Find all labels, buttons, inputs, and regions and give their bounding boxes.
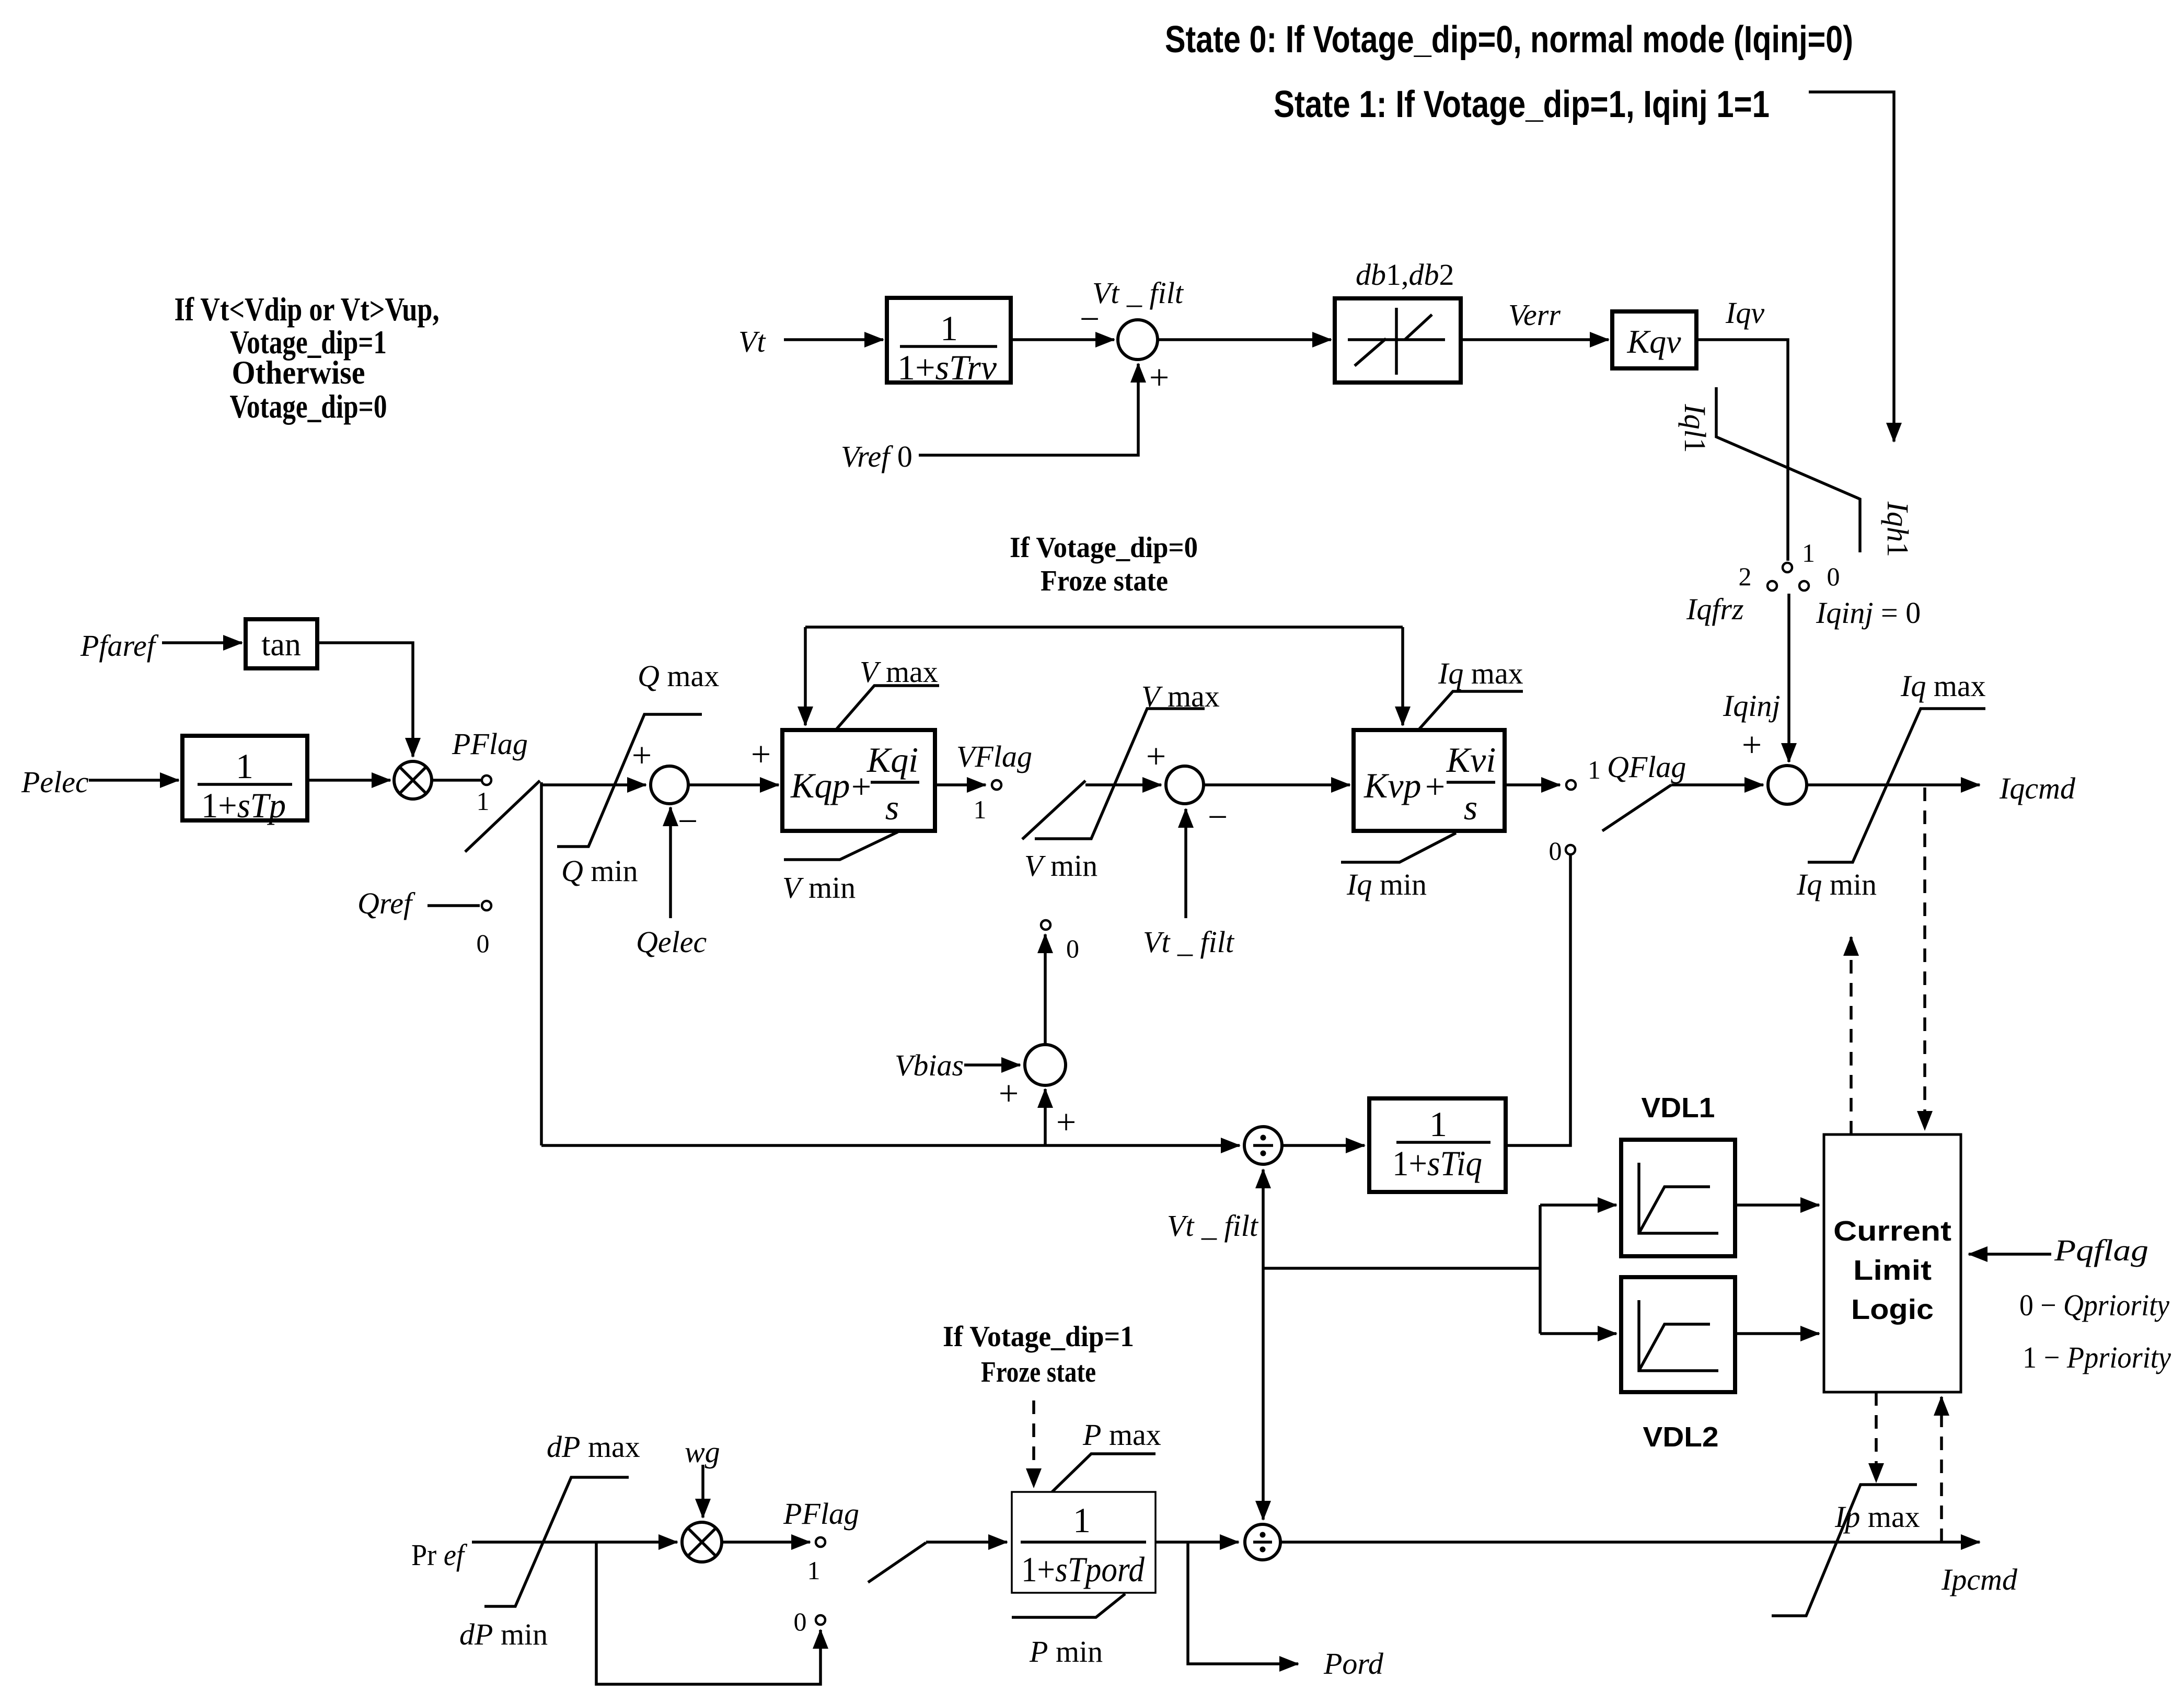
svg-text:Ipcmd: Ipcmd bbox=[1941, 1562, 2018, 1596]
svg-text:1+sTp: 1+sTp bbox=[201, 785, 286, 825]
wire divider to sTiq block bbox=[1282, 1144, 1365, 1147]
limiter Ip max (output) bbox=[1772, 1485, 1917, 1616]
svg-text:V min: V min bbox=[782, 871, 856, 905]
svg-text:Current: Current bbox=[1833, 1215, 1951, 1247]
svg-text:Vt _ filt: Vt _ filt bbox=[1143, 925, 1235, 959]
svg-text:Iq max: Iq max bbox=[1900, 669, 1986, 703]
wire Vref0 to summing (up arrow) bbox=[919, 364, 1138, 455]
svg-text:If Votage_dip=1: If Votage_dip=1 bbox=[943, 1321, 1134, 1353]
svg-text:Kvi: Kvi bbox=[1446, 740, 1496, 780]
svg-text:−: − bbox=[1080, 299, 1100, 339]
svg-text:Iq min: Iq min bbox=[1346, 867, 1427, 901]
svg-text:Vt _ filt: Vt _ filt bbox=[1167, 1209, 1259, 1243]
svg-text:Pelec: Pelec bbox=[21, 765, 89, 799]
summing junction Iqinj bbox=[1768, 766, 1807, 804]
svg-text:Pord: Pord bbox=[1323, 1647, 1384, 1681]
svg-text:Iql1: Iql1 bbox=[1678, 403, 1712, 453]
svg-text:Kvp: Kvp bbox=[1363, 766, 1422, 805]
svg-text:State 0: If Votage_dip=0, no: State 0: If Votage_dip=0, normal mode (I… bbox=[1165, 19, 1853, 61]
pointer V min to Kqp bbox=[784, 832, 898, 860]
svg-text:0: 0 bbox=[477, 929, 490, 958]
svg-text:1+sTiq: 1+sTiq bbox=[1392, 1143, 1482, 1183]
block Kvp + Kvi/s bbox=[1354, 730, 1505, 831]
QFlag switch terminal 0 bbox=[1566, 845, 1575, 854]
svg-text:Vbias: Vbias bbox=[895, 1048, 964, 1082]
svg-text:Limit: Limit bbox=[1853, 1255, 1932, 1286]
svg-text:dP max: dP max bbox=[547, 1430, 640, 1464]
pointer P min to Tpord bbox=[1012, 1594, 1125, 1617]
wire Vt_filt to V summing (up arrow) bbox=[1184, 809, 1187, 918]
svg-text:0: 0 bbox=[1827, 562, 1840, 591]
block 1/(1+sTpord) bbox=[1012, 1492, 1155, 1593]
svg-text:1: 1 bbox=[1802, 538, 1815, 568]
svg-text:+: + bbox=[1425, 767, 1445, 806]
wire wg to multiplier bbox=[701, 1465, 704, 1518]
block 1/(1+sTp) bbox=[182, 736, 307, 825]
wire multiplier to PFlag terminal 1 bbox=[722, 1541, 810, 1544]
wire Vt_filt vertical (up into divider) bbox=[1262, 1170, 1265, 1268]
wire Vbias to Vbias summing bbox=[964, 1063, 1020, 1067]
switch terminal 0 bbox=[1799, 581, 1809, 591]
wire Pqflag into CLL bbox=[1969, 1253, 2051, 1256]
svg-text:VDL1: VDL1 bbox=[1642, 1092, 1715, 1124]
wire Vt to Trv block bbox=[784, 338, 883, 341]
pointer P max to Tpord bbox=[1051, 1454, 1155, 1493]
limiter Qmax/Qmin bbox=[557, 714, 702, 847]
freeze-state feedback wire (If Votage_dip=0) bbox=[805, 626, 1403, 629]
wire Qelec to Q summing (up arrow) bbox=[669, 807, 672, 918]
svg-text:0: 0 bbox=[794, 1607, 807, 1636]
text: If Vt condition note bbox=[175, 291, 440, 425]
wire Pref branch to terminal 0 bbox=[596, 1542, 821, 1684]
svg-text:−: − bbox=[678, 801, 698, 841]
svg-text:Iq max: Iq max bbox=[1438, 656, 1523, 690]
wire Pfaref to tan bbox=[162, 641, 242, 644]
wire multiplier to PFlag terminal 1 bbox=[432, 779, 481, 782]
wire Pelec to Tp block bbox=[89, 779, 179, 782]
svg-text:1: 1 bbox=[807, 1556, 821, 1585]
rate limiter dPmax/dPmin bbox=[484, 1477, 629, 1606]
svg-text:Q max: Q max bbox=[638, 659, 719, 693]
wire Kqp to VFlag terminal 1 bbox=[935, 783, 986, 786]
block 1/(1+sTrv) bbox=[887, 298, 1011, 387]
pointer V max to Kqp bbox=[836, 686, 939, 730]
wire switch pole down to divider row bbox=[540, 782, 543, 1145]
divider circle (Verr/Vt_filt) bbox=[1244, 1127, 1282, 1164]
svg-text:+: + bbox=[1056, 1102, 1076, 1142]
block Current Limit Logic bbox=[1824, 1134, 1961, 1392]
svg-text:Verr: Verr bbox=[1508, 298, 1561, 332]
svg-text:0 − Qpriority: 0 − Qpriority bbox=[2019, 1288, 2169, 1322]
block tan bbox=[246, 619, 317, 668]
svg-text:Vref 0: Vref 0 bbox=[841, 439, 912, 473]
dashed wire Iqcmd junction down into CLL bbox=[1923, 788, 1926, 1130]
svg-text:1 − Ppriority: 1 − Ppriority bbox=[2023, 1340, 2171, 1374]
svg-text:Froze state: Froze state bbox=[981, 1356, 1096, 1388]
svg-text:1: 1 bbox=[1429, 1104, 1447, 1144]
wire VDL2 to Current Limit Logic bbox=[1735, 1332, 1819, 1335]
svg-text:P max: P max bbox=[1082, 1418, 1161, 1452]
wire Pord branch bbox=[1188, 1542, 1298, 1664]
svg-text:Votage_dip=0: Votage_dip=0 bbox=[230, 388, 387, 425]
limiter Vmax/Vmin (second) bbox=[1035, 709, 1205, 839]
svg-text:VDL2: VDL2 bbox=[1643, 1421, 1719, 1453]
svg-text:Pqflag: Pqflag bbox=[2054, 1233, 2148, 1267]
svg-text:1: 1 bbox=[1588, 755, 1601, 784]
svg-text:If Votage_dip=0: If Votage_dip=0 bbox=[1010, 531, 1198, 564]
svg-text:Kqp: Kqp bbox=[790, 766, 850, 805]
multiplier Pref x wg bbox=[682, 1522, 722, 1562]
wire VDL1 to Current Limit Logic bbox=[1735, 1203, 1819, 1207]
svg-text:0: 0 bbox=[1066, 934, 1079, 963]
wire Pref to multiplier bbox=[472, 1541, 677, 1544]
wire deadband to Kqv bbox=[1461, 338, 1609, 341]
wire tan to multiplier bbox=[317, 643, 413, 757]
svg-text:Iqv: Iqv bbox=[1725, 296, 1764, 330]
dashed wire Ipcmd line up into CLL bbox=[1940, 1397, 1943, 1542]
svg-text:Iqcmd: Iqcmd bbox=[1999, 771, 2076, 805]
svg-text:PFlag: PFlag bbox=[783, 1497, 859, 1531]
Qref switch terminal 0 bbox=[482, 901, 491, 910]
wire main row into Vbias summing (up arrow) bbox=[1044, 1089, 1047, 1145]
svg-text:1: 1 bbox=[1073, 1500, 1091, 1540]
svg-text:Logic: Logic bbox=[1851, 1294, 1934, 1325]
block deadband db1,db2 bbox=[1335, 298, 1461, 383]
dashed wire freeze to Tpord bbox=[1032, 1400, 1035, 1487]
wire Qref to terminal 0 bbox=[427, 904, 480, 907]
svg-text:Iqinj: Iqinj bbox=[1723, 689, 1781, 723]
svg-text:tan: tan bbox=[261, 627, 301, 663]
svg-text:Iq min: Iq min bbox=[1796, 867, 1877, 901]
svg-text:VFlag: VFlag bbox=[956, 739, 1032, 773]
svg-text:Q min: Q min bbox=[561, 854, 638, 888]
wire sTiq output up to QFlag terminal 0 bbox=[1506, 855, 1570, 1145]
svg-text:Qref: Qref bbox=[357, 886, 415, 920]
wire: State 1 to Iqinj switch (down arrow) bbox=[1809, 92, 1894, 442]
PFlag switch terminal 1 bbox=[482, 775, 491, 785]
wire Tpord to P divider bbox=[1155, 1541, 1239, 1544]
wire Tp to multiplier bbox=[307, 779, 390, 782]
svg-text:Vt _ filt: Vt _ filt bbox=[1092, 276, 1184, 310]
svg-text:+: + bbox=[632, 735, 652, 775]
dashed wire CLL down to Ip max bbox=[1875, 1392, 1878, 1482]
block 1/(1+sTiq) bbox=[1369, 1098, 1506, 1192]
switch arm QFlag bbox=[1602, 785, 1671, 831]
svg-text:V max: V max bbox=[1141, 679, 1220, 713]
svg-text:P min: P min bbox=[1029, 1635, 1103, 1669]
wire pole row to divider bbox=[541, 1144, 1240, 1147]
switch arm PFlag bottom bbox=[868, 1543, 926, 1582]
svg-text:2: 2 bbox=[1739, 562, 1752, 591]
svg-text:Pfaref: Pfaref bbox=[80, 629, 159, 663]
block Kqv bbox=[1612, 311, 1696, 368]
multiplier Pelec x tan bbox=[394, 761, 432, 799]
svg-text:+: + bbox=[1146, 736, 1166, 776]
wire Q summing to Kqp PI block bbox=[688, 783, 779, 786]
pointer Iq max to Kvp bbox=[1418, 691, 1523, 730]
wire Kqv to switch terminal 1 bbox=[1696, 340, 1788, 561]
svg-text:+: + bbox=[999, 1073, 1019, 1113]
text: If Votage_dip=0 Froze state bbox=[1010, 531, 1198, 597]
svg-text:Froze state: Froze state bbox=[1041, 565, 1168, 597]
wire switch pole to Iqinj summing bbox=[1787, 594, 1790, 762]
summing junction V bbox=[1166, 766, 1204, 804]
block VDL2 bbox=[1621, 1277, 1735, 1392]
svg-text:1: 1 bbox=[940, 308, 958, 348]
svg-text:−: − bbox=[1208, 797, 1228, 837]
wire QFlag pole to Iqinj summing bbox=[1671, 783, 1763, 786]
svg-text:PFlag: PFlag bbox=[452, 727, 528, 761]
svg-text:Otherwise: Otherwise bbox=[232, 354, 365, 391]
svg-text:db1,db2: db1,db2 bbox=[1356, 258, 1454, 292]
wire Iqinj summing to Iqcmd bbox=[1807, 783, 1980, 786]
svg-text:wg: wg bbox=[685, 1435, 720, 1469]
svg-text:Kqi: Kqi bbox=[866, 740, 918, 780]
block Kqp + Kqi/s bbox=[782, 730, 935, 831]
svg-text:State 1: If Votage_dip=1, Iq: State 1: If Votage_dip=1, Iqinj 1=1 bbox=[1274, 84, 1770, 125]
svg-text:V max: V max bbox=[860, 655, 938, 689]
QFlag switch terminal 1 bbox=[1566, 780, 1576, 790]
PFlag bottom switch terminal 1 bbox=[816, 1537, 825, 1547]
svg-text:Kqv: Kqv bbox=[1626, 323, 1681, 360]
svg-text:1+sTrv: 1+sTrv bbox=[897, 348, 997, 387]
svg-text:Iqinj = 0: Iqinj = 0 bbox=[1816, 596, 1921, 630]
wire switch pole to Tpord block bbox=[926, 1541, 1007, 1544]
svg-text:Iqh1: Iqh1 bbox=[1881, 501, 1915, 557]
wire summing to deadband bbox=[1158, 338, 1331, 341]
svg-text:1+sTpord: 1+sTpord bbox=[1021, 1549, 1145, 1589]
wire Vt_filt vertical down to P divider bbox=[1262, 1268, 1265, 1520]
svg-text:If Vt<Vdip or Vt>Vup,: If Vt<Vdip or Vt>Vup, bbox=[175, 291, 440, 328]
limiter Iqmax/Iqmin (output) bbox=[1808, 709, 1985, 862]
switch terminal 1 bbox=[1783, 563, 1792, 572]
switch stub Iql1 bbox=[1716, 387, 1860, 552]
PFlag bottom switch terminal 0 bbox=[816, 1615, 825, 1625]
summing junction Vbias bbox=[1025, 1045, 1066, 1085]
switch arm PFlag bbox=[465, 781, 540, 852]
wire VFlag pole to V summing bbox=[1085, 783, 1161, 786]
wire V summing to Kvp block bbox=[1204, 783, 1350, 786]
svg-text:Iqfrz: Iqfrz bbox=[1686, 592, 1744, 626]
svg-text:1: 1 bbox=[236, 746, 253, 786]
switch arm VFlag bbox=[1022, 781, 1085, 839]
switch terminal 2 bbox=[1767, 581, 1777, 591]
svg-text:Qelec: Qelec bbox=[636, 925, 707, 959]
wire Kvp to QFlag terminal 1 bbox=[1505, 783, 1560, 786]
svg-text:0: 0 bbox=[1549, 836, 1562, 865]
svg-text:Vt: Vt bbox=[738, 325, 766, 358]
VFlag switch terminal 1 bbox=[992, 780, 1001, 790]
svg-text:Pr ef: Pr ef bbox=[411, 1538, 467, 1572]
dashed wire CLL up to Iq limiter (Iq max/min) bbox=[1850, 937, 1853, 1134]
wire P divider to Ipcmd bbox=[1280, 1541, 1980, 1544]
svg-text:1: 1 bbox=[477, 786, 490, 816]
svg-text:1: 1 bbox=[974, 795, 987, 824]
svg-text:+: + bbox=[751, 734, 771, 774]
svg-text:dP min: dP min bbox=[459, 1617, 548, 1651]
summing junction Q bbox=[651, 766, 688, 804]
svg-text:+: + bbox=[1742, 725, 1762, 765]
svg-text:s: s bbox=[1464, 788, 1477, 827]
divider circle (Pord/Vt_filt) bbox=[1245, 1524, 1280, 1560]
svg-text:s: s bbox=[885, 788, 899, 827]
wire Vt_filt branch to VDL blocks bbox=[1263, 1267, 1540, 1270]
VFlag switch terminal 0 bbox=[1041, 920, 1050, 930]
summing junction Vt_filt minus Vref0 bbox=[1118, 320, 1158, 360]
wire Vbias summing up to VFlag terminal 0 bbox=[1044, 934, 1047, 1045]
wire pole to Q summing bbox=[541, 783, 646, 786]
svg-text:+: + bbox=[1149, 357, 1169, 397]
wire Trv to summing bbox=[1011, 338, 1114, 341]
text: If Votage_dip=1 Froze state bbox=[943, 1321, 1134, 1388]
svg-text:V min: V min bbox=[1024, 849, 1097, 883]
pointer Iq min to Kvp bbox=[1341, 833, 1456, 862]
block VDL1 bbox=[1621, 1140, 1735, 1256]
svg-text:QFlag: QFlag bbox=[1607, 750, 1686, 784]
